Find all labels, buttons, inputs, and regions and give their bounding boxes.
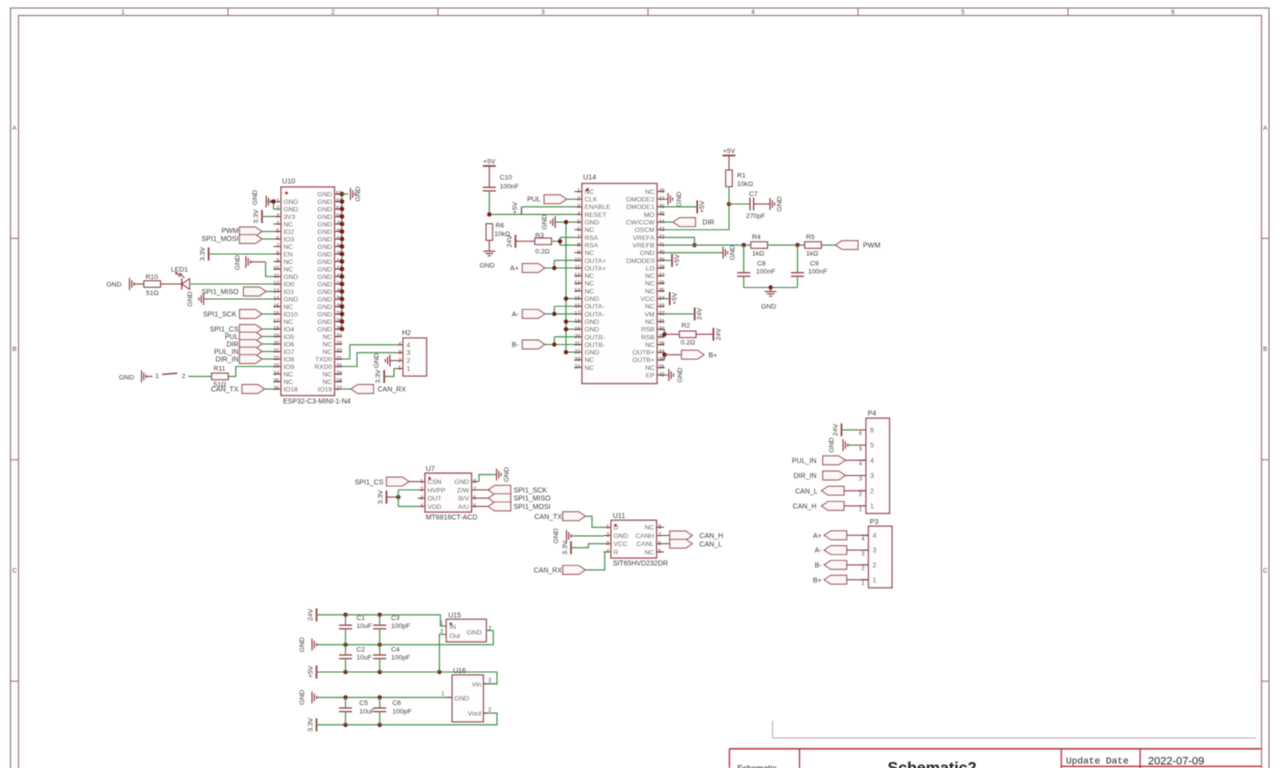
net flag PUL_IN bbox=[792, 456, 845, 465]
svg-text:+5V: +5V bbox=[512, 201, 519, 214]
svg-text:NC: NC bbox=[284, 266, 294, 273]
svg-text:GND: GND bbox=[317, 296, 332, 303]
svg-text:GND: GND bbox=[777, 196, 784, 211]
svg-text:14: 14 bbox=[273, 296, 279, 302]
svg-text:VREFA: VREFA bbox=[633, 235, 655, 242]
wire bbox=[262, 216, 274, 218]
svg-text:4: 4 bbox=[398, 342, 401, 348]
svg-text:U7: U7 bbox=[426, 464, 435, 473]
svg-text:PUL: PUL bbox=[225, 334, 239, 341]
net flag A+ bbox=[510, 264, 545, 273]
power 3.3V at U10 EN bbox=[200, 247, 209, 261]
svg-text:NC: NC bbox=[585, 273, 595, 280]
svg-text:CAN_TX: CAN_TX bbox=[534, 514, 562, 521]
svg-text:41: 41 bbox=[659, 242, 665, 248]
svg-text:44: 44 bbox=[659, 219, 665, 225]
resistor R5 1kΩ bbox=[805, 234, 822, 258]
svg-text:P3: P3 bbox=[870, 519, 879, 526]
svg-text:B-: B- bbox=[512, 342, 520, 349]
resistor R10 51Ω bbox=[144, 274, 181, 297]
svg-text:5: 5 bbox=[859, 446, 862, 452]
resistor R2 0.2Ω bbox=[665, 323, 714, 347]
chip U10 ESP32-C3-MINI-1-N4 bbox=[273, 177, 350, 406]
wire bbox=[845, 459, 866, 461]
net flag DIR_IN bbox=[216, 355, 262, 364]
svg-text:NC: NC bbox=[645, 342, 655, 349]
svg-text:15: 15 bbox=[574, 296, 580, 302]
svg-text:100pF: 100pF bbox=[391, 623, 410, 630]
wire bbox=[552, 240, 561, 242]
net flag PWM bbox=[221, 227, 262, 236]
wire bbox=[845, 475, 866, 477]
svg-text:GND: GND bbox=[317, 281, 332, 288]
svg-text:3.3V: 3.3V bbox=[375, 369, 382, 383]
svg-text:MT6816CT-ACD: MT6816CT-ACD bbox=[426, 515, 478, 522]
svg-text:GND: GND bbox=[317, 236, 332, 243]
svg-text:GND: GND bbox=[454, 695, 469, 702]
svg-text:35: 35 bbox=[659, 288, 665, 294]
svg-text:12: 12 bbox=[574, 273, 580, 279]
svg-text:MO: MO bbox=[644, 212, 655, 219]
junction bbox=[343, 695, 347, 699]
wire GND bus left of U14 bbox=[565, 222, 567, 352]
wire bbox=[566, 221, 575, 223]
svg-text:IO5: IO5 bbox=[284, 334, 295, 341]
svg-text:1: 1 bbox=[407, 366, 411, 373]
junction bbox=[558, 239, 562, 243]
svg-text:22: 22 bbox=[574, 349, 580, 355]
net flag A- bbox=[815, 546, 847, 555]
wire bbox=[487, 683, 497, 685]
svg-text:NC: NC bbox=[585, 250, 595, 257]
svg-text:B+: B+ bbox=[813, 577, 822, 584]
wire bbox=[146, 375, 152, 377]
svg-text:3: 3 bbox=[276, 214, 279, 220]
ground rail 2 flag bbox=[299, 690, 317, 705]
svg-text:2: 2 bbox=[489, 626, 492, 632]
power 3.3V at H2 pin 1 bbox=[375, 369, 384, 383]
svg-text:IO3: IO3 bbox=[284, 236, 295, 243]
svg-text:Out: Out bbox=[449, 633, 460, 640]
capacitor C2 10uF bbox=[339, 645, 372, 672]
svg-text:B+: B+ bbox=[709, 352, 718, 359]
svg-text:GND: GND bbox=[317, 274, 332, 281]
junction bbox=[564, 319, 568, 323]
ground under C8/C9 bbox=[761, 288, 777, 311]
svg-text:4: 4 bbox=[751, 9, 755, 16]
chip U14 stepper driver bbox=[574, 173, 664, 384]
svg-text:0.2Ω: 0.2Ω bbox=[535, 248, 550, 255]
svg-text:40: 40 bbox=[659, 250, 665, 256]
junction bbox=[692, 243, 696, 247]
svg-text:9: 9 bbox=[276, 259, 279, 265]
net flag CAN_TX bbox=[534, 512, 585, 521]
net flag PUL_IN bbox=[214, 347, 262, 356]
svg-text:20: 20 bbox=[574, 334, 580, 340]
junction bbox=[564, 327, 568, 331]
svg-text:3: 3 bbox=[577, 204, 580, 210]
svg-text:SPI1_MISO: SPI1_MISO bbox=[514, 496, 552, 503]
svg-text:GND: GND bbox=[317, 244, 332, 251]
svg-text:EN: EN bbox=[284, 251, 293, 258]
svg-text:NC: NC bbox=[585, 227, 595, 234]
svg-text:NC: NC bbox=[645, 319, 655, 326]
junction bbox=[378, 613, 382, 617]
svg-text:IO0: IO0 bbox=[284, 281, 295, 288]
svg-text:GND: GND bbox=[317, 199, 332, 206]
svg-text:IO1: IO1 bbox=[284, 289, 295, 296]
wire GND rail 2 bbox=[317, 696, 453, 698]
net flag B- bbox=[815, 561, 847, 570]
svg-text:NC: NC bbox=[284, 379, 294, 386]
wire bbox=[274, 202, 282, 210]
ground at U14 EP bbox=[665, 367, 684, 382]
svg-text:10uF: 10uF bbox=[359, 709, 375, 716]
net flag PWM bbox=[836, 241, 881, 250]
svg-text:6: 6 bbox=[473, 495, 476, 501]
svg-text:GND: GND bbox=[317, 214, 332, 221]
svg-text:R10: R10 bbox=[146, 274, 159, 281]
svg-text:H2: H2 bbox=[402, 330, 411, 337]
svg-text:Vin: Vin bbox=[472, 681, 482, 688]
svg-text:270pF: 270pF bbox=[746, 213, 765, 220]
svg-text:2: 2 bbox=[488, 707, 491, 713]
net flag SPI1_CS bbox=[355, 477, 409, 486]
svg-text:DMODE1: DMODE1 bbox=[626, 204, 655, 211]
svg-text:CSN: CSN bbox=[428, 479, 442, 486]
svg-text:28: 28 bbox=[659, 342, 665, 348]
svg-text:+5V: +5V bbox=[672, 292, 679, 305]
svg-text:NC: NC bbox=[322, 334, 332, 341]
svg-text:CANH: CANH bbox=[635, 533, 654, 540]
svg-text:NC: NC bbox=[322, 349, 332, 356]
net flag SPI1_MOSI bbox=[202, 235, 262, 244]
svg-text:GND: GND bbox=[676, 192, 683, 207]
junction bbox=[795, 243, 799, 247]
svg-text:HVPP: HVPP bbox=[428, 487, 447, 494]
wire bbox=[566, 351, 575, 353]
svg-text:A-: A- bbox=[815, 548, 823, 555]
svg-text:8: 8 bbox=[577, 242, 580, 248]
svg-text:24: 24 bbox=[574, 365, 580, 371]
svg-text:RXD0: RXD0 bbox=[314, 364, 332, 371]
svg-text:5: 5 bbox=[473, 504, 476, 510]
title block bbox=[729, 721, 1261, 768]
svg-text:3: 3 bbox=[440, 629, 443, 635]
svg-text:25: 25 bbox=[273, 379, 279, 385]
capacitor C10 100nF bbox=[483, 175, 519, 191]
svg-text:18: 18 bbox=[273, 326, 279, 332]
svg-text:1: 1 bbox=[870, 502, 874, 511]
wire bbox=[585, 552, 611, 570]
wire bbox=[553, 337, 555, 345]
svg-text:43: 43 bbox=[659, 227, 665, 233]
capacitor C8 100nF bbox=[737, 245, 775, 287]
svg-text:5: 5 bbox=[870, 441, 874, 450]
svg-text:7: 7 bbox=[658, 533, 661, 539]
svg-text:GND: GND bbox=[730, 245, 737, 260]
net flag SPI1_MOSI bbox=[479, 502, 551, 511]
wire bbox=[262, 238, 274, 240]
svg-text:OUTB+: OUTB+ bbox=[632, 350, 654, 357]
wire bbox=[488, 240, 490, 251]
resistor R6 10kΩ bbox=[486, 223, 510, 241]
svg-text:LED1: LED1 bbox=[171, 266, 188, 273]
power 24V at R2 bbox=[713, 328, 722, 341]
svg-text:A+: A+ bbox=[510, 266, 519, 273]
wire bbox=[342, 388, 351, 390]
wire bbox=[566, 328, 575, 330]
svg-text:GND: GND bbox=[677, 367, 684, 382]
svg-text:OUTA+: OUTA+ bbox=[585, 258, 607, 265]
power +5V above C10 bbox=[483, 159, 496, 167]
svg-text:25: 25 bbox=[659, 365, 665, 371]
svg-text:13: 13 bbox=[273, 289, 279, 295]
svg-text:NC: NC bbox=[284, 221, 294, 228]
wire OSCM to R1/C7 bbox=[665, 204, 730, 230]
junction bbox=[564, 220, 568, 224]
wire bbox=[664, 329, 666, 337]
wire bbox=[665, 221, 674, 223]
svg-text:NC: NC bbox=[322, 341, 332, 348]
ground at U10 pin 53 bbox=[342, 186, 362, 201]
wire 3.3V rail bbox=[317, 713, 498, 725]
svg-text:7: 7 bbox=[577, 235, 580, 241]
junction bbox=[378, 723, 382, 727]
svg-text:7: 7 bbox=[473, 487, 476, 493]
wire bbox=[847, 549, 869, 551]
svg-text:100pF: 100pF bbox=[392, 709, 411, 716]
svg-text:C7: C7 bbox=[749, 191, 758, 198]
svg-text:21: 21 bbox=[273, 349, 279, 355]
svg-text:24V: 24V bbox=[308, 608, 315, 621]
regulator U16 bbox=[441, 668, 491, 722]
svg-text:+5V: +5V bbox=[483, 159, 496, 166]
svg-text:CAN_L: CAN_L bbox=[699, 541, 722, 548]
junction bbox=[552, 266, 556, 270]
capacitor C3 100pF bbox=[373, 615, 410, 645]
svg-text:8: 8 bbox=[473, 479, 476, 485]
wire bbox=[262, 313, 274, 315]
svg-text:2: 2 bbox=[859, 492, 862, 498]
svg-text:30: 30 bbox=[659, 326, 665, 332]
wire bbox=[398, 489, 417, 491]
svg-text:D: D bbox=[614, 525, 619, 532]
wire bbox=[342, 345, 396, 359]
ground under R6 bbox=[480, 251, 496, 269]
net flag SPI1_CS bbox=[210, 325, 262, 334]
svg-text:GND: GND bbox=[317, 259, 332, 266]
svg-text:GND: GND bbox=[317, 266, 332, 273]
svg-text:IO9: IO9 bbox=[284, 364, 295, 371]
svg-text:23: 23 bbox=[574, 357, 580, 363]
svg-text:GND: GND bbox=[317, 319, 332, 326]
svg-text:R: R bbox=[614, 549, 619, 556]
svg-text:4: 4 bbox=[420, 504, 423, 510]
svg-text:U16: U16 bbox=[453, 668, 466, 675]
junction bbox=[487, 212, 491, 216]
junction bbox=[662, 332, 666, 336]
svg-text:8: 8 bbox=[658, 525, 661, 531]
wire bbox=[554, 305, 574, 307]
net flag SPI1_MISO bbox=[202, 287, 266, 296]
svg-text:B-: B- bbox=[815, 563, 823, 570]
svg-text:2: 2 bbox=[182, 373, 186, 380]
wire bbox=[262, 328, 274, 330]
wire bbox=[262, 336, 274, 338]
power 3.3V rail flag bbox=[308, 717, 317, 731]
svg-text:CANL: CANL bbox=[636, 541, 654, 548]
resistor R11 51Ω bbox=[212, 366, 229, 389]
svg-text:2: 2 bbox=[873, 561, 877, 570]
wire bbox=[844, 505, 866, 507]
svg-text:100nF: 100nF bbox=[808, 269, 827, 276]
junction bbox=[552, 312, 556, 316]
svg-text:IO10: IO10 bbox=[284, 311, 299, 318]
svg-text:4: 4 bbox=[276, 221, 279, 227]
svg-text:CAN_L: CAN_L bbox=[795, 488, 818, 495]
svg-text:37: 37 bbox=[659, 273, 665, 279]
svg-text:15: 15 bbox=[273, 304, 279, 310]
wire bbox=[664, 352, 666, 360]
svg-text:4: 4 bbox=[873, 531, 877, 540]
wire bbox=[262, 231, 274, 233]
power 24V rail flag bbox=[308, 608, 317, 621]
svg-text:3.3V: 3.3V bbox=[253, 209, 260, 223]
svg-text:3: 3 bbox=[873, 546, 877, 555]
capacitor C7 270pF bbox=[729, 191, 770, 220]
svg-text:31: 31 bbox=[659, 319, 665, 325]
svg-text:C3: C3 bbox=[391, 615, 400, 622]
svg-text:NC: NC bbox=[284, 244, 294, 251]
capacitor C4 100pF bbox=[373, 645, 410, 672]
svg-text:GND: GND bbox=[585, 350, 600, 357]
net flag CAN_L bbox=[664, 539, 722, 548]
ground at U10 pins 1-2 bbox=[252, 190, 274, 208]
svg-text:1: 1 bbox=[577, 189, 580, 195]
svg-text:DMODE2: DMODE2 bbox=[626, 197, 655, 204]
svg-text:ENABLE: ENABLE bbox=[585, 204, 612, 211]
power +5V rail flag bbox=[308, 665, 317, 678]
wire GND bus right of U10 bbox=[341, 194, 343, 329]
wire bbox=[342, 353, 396, 367]
wire bbox=[842, 429, 859, 431]
svg-text:100nF: 100nF bbox=[500, 183, 519, 190]
svg-text:6: 6 bbox=[658, 541, 661, 547]
wire bbox=[188, 375, 211, 377]
wire bbox=[384, 369, 395, 377]
svg-text:48: 48 bbox=[659, 189, 665, 195]
junction bbox=[343, 723, 347, 727]
svg-text:NC: NC bbox=[644, 525, 654, 532]
svg-text:SPI1_MOSI: SPI1_MOSI bbox=[514, 504, 551, 511]
svg-text:GND: GND bbox=[317, 251, 332, 258]
svg-text:GND: GND bbox=[640, 250, 655, 257]
svg-text:PUL: PUL bbox=[527, 197, 541, 204]
wire bbox=[134, 283, 144, 285]
svg-text:NC: NC bbox=[645, 304, 655, 311]
svg-text:100nF: 100nF bbox=[756, 269, 775, 276]
svg-text:OUTB+: OUTB+ bbox=[632, 357, 654, 364]
svg-text:4: 4 bbox=[407, 342, 411, 349]
svg-text:19: 19 bbox=[574, 326, 580, 332]
svg-text:NC: NC bbox=[585, 365, 595, 372]
junction dots on U10 GND bus bbox=[340, 192, 345, 332]
svg-text:B/V: B/V bbox=[458, 496, 469, 503]
svg-text:3.3V: 3.3V bbox=[562, 540, 569, 554]
svg-text:GND: GND bbox=[761, 304, 776, 311]
wire bbox=[262, 351, 274, 353]
svg-text:C9: C9 bbox=[810, 261, 819, 268]
svg-text:3.3V: 3.3V bbox=[200, 247, 207, 261]
svg-text:NC: NC bbox=[284, 304, 294, 311]
svg-text:VDD: VDD bbox=[428, 504, 442, 511]
ground at H2 pin 2 bbox=[374, 353, 396, 368]
svg-text:10uF: 10uF bbox=[356, 623, 372, 630]
svg-text:R11: R11 bbox=[214, 366, 226, 373]
connector P4 bbox=[858, 411, 889, 514]
net flag SPI1_SCK bbox=[479, 485, 547, 494]
junction bbox=[396, 495, 400, 499]
wire bbox=[665, 206, 698, 208]
svg-text:24V: 24V bbox=[715, 328, 722, 341]
ground at P4 pin5 bbox=[829, 437, 859, 452]
svg-text:10uF: 10uF bbox=[356, 655, 372, 662]
svg-text:R1: R1 bbox=[737, 173, 746, 180]
svg-text:8: 8 bbox=[276, 251, 279, 257]
net flag CAN_H bbox=[664, 531, 723, 540]
wire bbox=[847, 534, 869, 536]
junction bbox=[343, 643, 347, 647]
svg-text:39: 39 bbox=[659, 258, 665, 264]
svg-text:4: 4 bbox=[862, 537, 865, 543]
svg-text:SIT65HVD232DR: SIT65HVD232DR bbox=[613, 561, 668, 568]
svg-text:16: 16 bbox=[273, 311, 279, 317]
junction bbox=[378, 695, 382, 699]
net flag SPI1_SCK bbox=[203, 310, 262, 319]
svg-text:U14: U14 bbox=[583, 173, 596, 182]
svg-text:47: 47 bbox=[659, 196, 665, 202]
svg-text:PWM: PWM bbox=[221, 228, 238, 235]
svg-text:33: 33 bbox=[336, 341, 342, 347]
wire bbox=[566, 298, 575, 300]
wire bbox=[266, 291, 274, 293]
svg-text:32: 32 bbox=[336, 349, 342, 355]
svg-text:17: 17 bbox=[273, 319, 279, 325]
wire bbox=[516, 240, 536, 242]
power 24V at R3 bbox=[507, 235, 516, 248]
svg-text:2: 2 bbox=[862, 566, 865, 572]
wire bbox=[522, 206, 575, 208]
svg-text:3: 3 bbox=[862, 551, 865, 557]
net flag PUL bbox=[527, 195, 567, 204]
svg-text:27: 27 bbox=[336, 386, 342, 392]
svg-text:36: 36 bbox=[659, 281, 665, 287]
ground rail flag bbox=[299, 637, 317, 652]
svg-text:GND: GND bbox=[119, 375, 134, 382]
svg-text:GND: GND bbox=[317, 311, 332, 318]
net flag DIR bbox=[673, 218, 714, 227]
svg-text:NC: NC bbox=[322, 379, 332, 386]
svg-text:1: 1 bbox=[420, 479, 423, 485]
svg-text:C1: C1 bbox=[356, 615, 365, 622]
svg-text:SPI1_SCK: SPI1_SCK bbox=[514, 487, 548, 494]
svg-text:R4: R4 bbox=[752, 234, 761, 241]
svg-text:NC: NC bbox=[585, 189, 595, 196]
net flag SPI1_MISO bbox=[479, 494, 551, 503]
power 3.3V at U11 VCC bbox=[562, 540, 571, 554]
resistor R1 10kΩ bbox=[726, 156, 753, 205]
